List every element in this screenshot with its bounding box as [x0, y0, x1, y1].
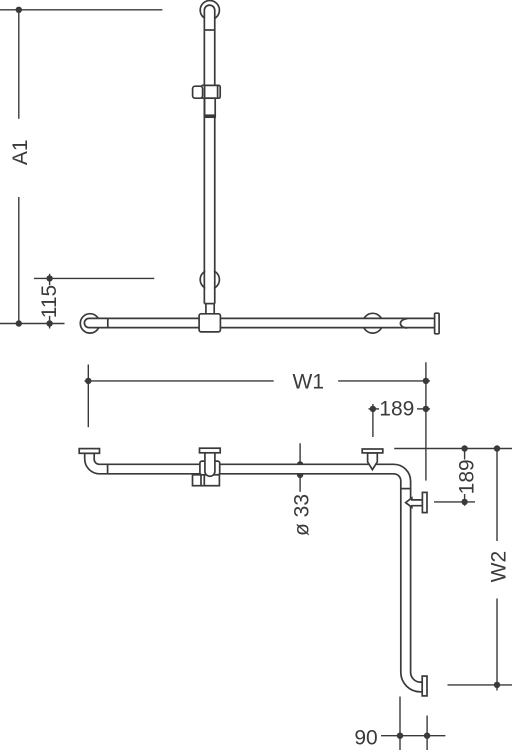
- pipe joint line left (plan): [107, 464, 109, 474]
- dimension W1 left dot: [85, 378, 91, 384]
- 90 extension line right: [426, 716, 428, 750]
- W1 extension line right: [425, 362, 427, 480]
- d33 dot bottom: [297, 472, 303, 478]
- dimension A1 top extension line: [0, 9, 162, 11]
- svg-text:ø 33: ø 33: [291, 494, 314, 536]
- holder box below bar (plan): [193, 475, 220, 486]
- svg-text:189: 189: [456, 459, 479, 494]
- shower rail stem through bar (plan): [205, 453, 215, 477]
- dot 189 vertical top: [461, 445, 467, 451]
- pipe joint line on vertical tube (plan): [401, 488, 411, 490]
- wall bracket top (plan): plate: [362, 449, 383, 453]
- dimension 189 top left dot: [370, 406, 376, 412]
- dimension W1 right dot: [423, 378, 429, 384]
- bottom wall flange plate (plan): [422, 676, 427, 696]
- dimension 115 vertical upper stub: [49, 274, 51, 285]
- svg-text:W1: W1: [293, 370, 325, 393]
- shower rail tube cover over middle ring: [205, 269, 214, 290]
- dimension 90 right dot: [424, 733, 430, 739]
- wall flange ring left (front view): [80, 314, 99, 333]
- dimension d33 vertical line: [299, 443, 301, 492]
- d33 dot top: [297, 461, 303, 467]
- dimension W1 line left segment: [85, 380, 274, 382]
- dimension W2 bottom dot: [494, 682, 500, 688]
- svg-text:115: 115: [38, 285, 61, 318]
- 90 extension line left: [399, 697, 401, 750]
- wall bracket top (plan): pin: [368, 453, 378, 470]
- dimension W2 line lower segment: [496, 599, 498, 691]
- holder sleeve thick bottom: [205, 114, 216, 117]
- dimension 90 horizontal line: [381, 735, 445, 737]
- wall bracket right (plan): plate: [422, 492, 427, 512]
- holder clamp inner line left: [204, 86, 206, 98]
- svg-text:90: 90: [354, 726, 377, 749]
- dimension W2 line upper segment: [496, 449, 498, 542]
- 189 extension line down to bracket: [372, 404, 374, 437]
- svg-text:W2: W2: [488, 551, 511, 583]
- dimension 189 top line right stub: [417, 408, 430, 410]
- dimension 189 top right dot: [423, 406, 429, 412]
- wall bracket right (plan): pin: [406, 498, 423, 507]
- dimension 115 top extension line: [34, 277, 154, 279]
- grab bar inner tube end cap: [400, 319, 407, 328]
- holder box inner line 1: [200, 475, 202, 486]
- holder box inner line 2: [203, 475, 205, 486]
- holder cup (front view): [193, 86, 203, 98]
- 189 vertical bottom extension line: [434, 501, 475, 503]
- dimension 115 bottom dot: [46, 320, 52, 326]
- W2 bottom extension line: [448, 684, 512, 686]
- dimension A1 bottom dot: [16, 320, 22, 326]
- dimension 90 left dot: [397, 733, 403, 739]
- dimension 189 top line left stub: [369, 408, 380, 410]
- shower rail joint line above junction: [204, 303, 214, 305]
- dimension 189 vertical lower stub: [464, 494, 466, 506]
- dimension 189 vertical upper stub: [464, 449, 466, 460]
- grab rail pipe (plan view, L-shape): [85, 453, 423, 692]
- wall flange plate left (plan): [79, 449, 99, 454]
- dimension 189 vertical bottom dot: [461, 499, 467, 505]
- shower head holder clamp (front view): [201, 85, 220, 98]
- shower rail ring middle: [200, 270, 219, 289]
- dimension W1 line right segment: [338, 380, 430, 382]
- shower rail narrow stem into junction: [205, 304, 207, 314]
- dimension 115 vertical lower stub: [49, 316, 51, 329]
- wall reference line (right): [394, 448, 512, 450]
- grab bar joint line left: [107, 318, 109, 327]
- shower rail tube lower part: [203, 98, 205, 304]
- dimension 115 top dot: [46, 275, 52, 281]
- junction box (front view): [199, 314, 220, 332]
- dimension A1 top dot: [16, 7, 22, 13]
- dimension A1 vertical line lower segment: [18, 197, 20, 324]
- svg-text:189: 189: [379, 398, 414, 421]
- dimension A1 vertical line upper segment: [18, 10, 20, 119]
- ring on grab bar right (front view): [363, 313, 383, 333]
- W1 extension line left: [87, 365, 89, 428]
- svg-text:A1: A1: [9, 139, 32, 165]
- holder clamp inner line right: [217, 85, 219, 98]
- shower rail tube upper part: [204, 5, 214, 86]
- grab bar (front view): [84, 318, 436, 327]
- shower rail tube joint line top: [204, 29, 214, 31]
- shower rail top ring: [200, 1, 219, 20]
- holder top plate (plan): [200, 448, 221, 453]
- holder collar on bar (plan): [200, 461, 220, 475]
- wall flange plate right (front view): [435, 313, 440, 334]
- dimension A1 bottom extension line: [0, 323, 65, 325]
- dot W2 top: [494, 445, 500, 451]
- holder sleeve below (front view): [205, 98, 216, 117]
